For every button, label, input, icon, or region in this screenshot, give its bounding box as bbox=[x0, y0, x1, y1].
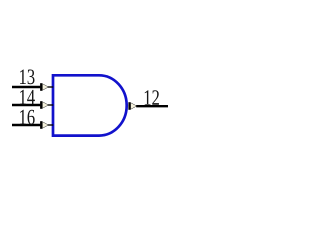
pin arrow input 14 bbox=[40, 101, 53, 109]
wire input pin 16 bbox=[12, 124, 40, 127]
pin number 14 bbox=[20, 90, 35, 105]
pin number 16 bbox=[20, 110, 35, 125]
pin arrow output 12 bbox=[128, 102, 137, 110]
wire output pin 12 bbox=[136, 105, 168, 107]
wire input pin 13 bbox=[12, 86, 40, 89]
wire input pin 14 bbox=[12, 104, 40, 107]
AND gate U1 body bbox=[53, 75, 127, 135]
pin arrow input 13 bbox=[40, 83, 53, 91]
pin number 12 bbox=[145, 90, 159, 105]
pin number 13 bbox=[20, 69, 35, 84]
pin arrow input 16 bbox=[40, 121, 53, 129]
